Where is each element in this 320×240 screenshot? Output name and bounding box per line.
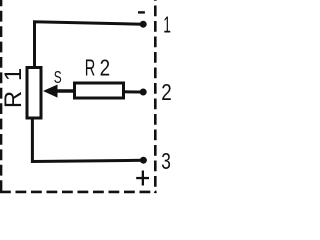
- polarity minus at terminal 1: [138, 11, 145, 13]
- wire from R2 to terminal 2: [125, 90, 140, 93]
- label R2: [85, 55, 110, 81]
- svg-text:2: 2: [161, 80, 171, 105]
- enclosure dashed boundary bottom: [0, 191, 157, 194]
- svg-text:1: 1: [163, 13, 171, 38]
- terminal dot 1: [140, 21, 147, 28]
- pin number 2: [161, 80, 171, 105]
- svg-text:R: R: [85, 55, 96, 81]
- label R1 (rotated): [0, 66, 27, 108]
- polarity plus at terminal 3: [136, 171, 149, 186]
- svg-text:S: S: [54, 68, 62, 88]
- wire from R1 bottom to terminal 3: [32, 118, 143, 162]
- svg-text:3: 3: [161, 150, 171, 175]
- wire from R1 top to terminal 1: [35, 22, 144, 68]
- resistor R2: [75, 83, 124, 98]
- label s: [54, 68, 62, 88]
- potentiometer R1: [27, 68, 41, 119]
- terminal dot 2: [140, 89, 147, 96]
- pin number 1: [163, 13, 171, 38]
- pin number 3: [161, 150, 171, 175]
- terminal dot 3: [140, 157, 147, 164]
- enclosure dashed boundary left: [0, 0, 2, 193]
- enclosure dashed boundary right: [154, 0, 157, 193]
- svg-text:2: 2: [100, 56, 110, 81]
- svg-text:R 1: R 1: [0, 66, 27, 108]
- wiper arrow (tap s): [43, 85, 75, 98]
